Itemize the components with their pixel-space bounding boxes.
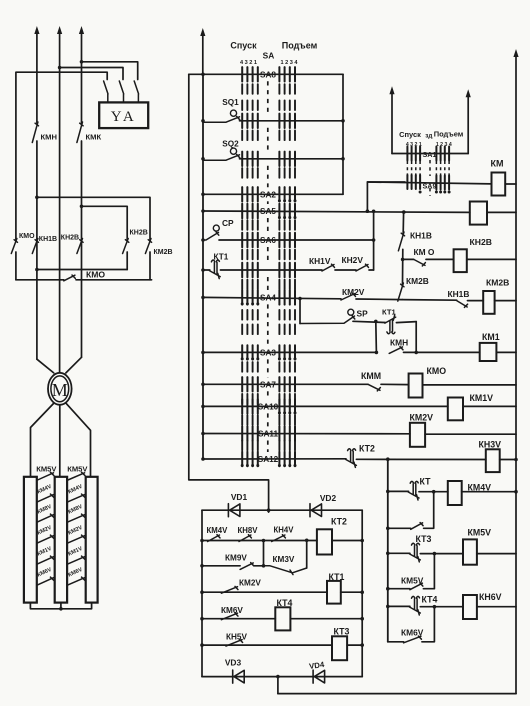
- svg-text:КН1V: КН1V: [309, 256, 331, 266]
- wire row KTrow a: [203, 269, 210, 271]
- contact KMM: [368, 384, 380, 391]
- wire: controller feed vertical: [202, 74, 204, 459]
- junction SA3/x376: [375, 351, 379, 355]
- wire: phase L1 vertical with arrow: [36, 32, 38, 123]
- junction riser/SA6: [201, 238, 205, 242]
- resistor bank R3: [86, 477, 98, 603]
- contact KMN on phase L1: [32, 122, 38, 143]
- wire KMO coil to bus: [423, 384, 517, 386]
- dots SA9 closed positions: [435, 191, 438, 194]
- svg-text:Спуск: Спуск: [399, 130, 421, 139]
- svg-text:Подъем: Подъем: [282, 41, 318, 51]
- junction SA5/x367: [366, 209, 370, 213]
- wire row SA7 b: [381, 383, 409, 385]
- wire: rotor left: [31, 404, 54, 477]
- wire row SA11: [203, 433, 410, 435]
- svg-text:КТ2: КТ2: [331, 517, 347, 527]
- contact KM2B aux: [398, 283, 404, 301]
- junction riser/SQ2: [201, 157, 205, 161]
- contact KM2V blk: [221, 586, 238, 593]
- junction SA6/x373: [372, 238, 376, 242]
- wire: x306 link: [306, 540, 308, 568]
- svg-text:КМ2В: КМ2В: [406, 276, 429, 286]
- svg-text:КМ2V: КМ2V: [410, 413, 434, 423]
- svg-text:КТ1: КТ1: [329, 572, 345, 582]
- wire KT row a: [388, 490, 409, 492]
- wire: x402 vertical a: [402, 212, 404, 233]
- svg-text:КТ3: КТ3: [334, 627, 350, 637]
- junction blk/r2: [200, 564, 204, 568]
- small controller centre dashes: [429, 160, 431, 176]
- contact KT1 on KTrow: [209, 260, 220, 279]
- junction x388/branch1: [386, 527, 390, 531]
- switch SP on SA6 row: [203, 232, 219, 240]
- contact KN1B aux: [398, 232, 404, 251]
- wire row2 blk b: [254, 565, 263, 567]
- svg-text:КМ5V: КМ5V: [468, 528, 492, 538]
- wire KM1V coil to bus: [463, 405, 516, 407]
- svg-text:Подъем: Подъем: [434, 130, 464, 139]
- coil KM2B: [483, 291, 494, 314]
- junction x343 SQ2row: [341, 157, 345, 161]
- svg-text:КМ2В: КМ2В: [486, 278, 509, 288]
- junction SA12/x388: [386, 457, 390, 461]
- contact KT: [408, 481, 419, 500]
- junction riser/SA5: [201, 209, 205, 213]
- contact KMN aux: [389, 347, 403, 354]
- coil KM4V: [448, 481, 462, 505]
- wire KM5V coil to bus: [477, 553, 516, 555]
- svg-text:КТ4: КТ4: [422, 595, 438, 605]
- contact KM9V blk: [240, 563, 254, 570]
- svg-text:КТ: КТ: [420, 477, 432, 487]
- wire: small riser left with arrow: [391, 92, 393, 153]
- wire: left drop lower: [15, 252, 17, 280]
- coil KM5V: [463, 539, 477, 564]
- coil KMO: [409, 374, 423, 398]
- junction x388/KTrow2: [386, 490, 390, 494]
- svg-text:КН8V: КН8V: [238, 526, 259, 535]
- contact KM2B on x150 drop: [145, 239, 151, 254]
- wire row SA8: [189, 73, 343, 75]
- junction L1 tie: [35, 196, 39, 200]
- wire row KTrow b: [220, 269, 322, 271]
- wire row SA2: [203, 193, 343, 195]
- junction KTrow/x434: [432, 490, 436, 494]
- controller closed-position dots: [278, 199, 281, 202]
- contact KN1B on phase L1: [32, 239, 38, 254]
- wire: YA tap 2 from L2: [60, 68, 123, 80]
- junction riser/SA12: [201, 457, 205, 461]
- coil KM2V: [410, 423, 425, 447]
- svg-text:КМК: КМК: [86, 133, 102, 142]
- contact branch1: [411, 523, 423, 530]
- wire row SA4: [203, 297, 402, 299]
- junction x343 SQ1row: [341, 119, 345, 123]
- wire branch1: [388, 527, 411, 529]
- contact of YA circuit 1: [104, 81, 108, 102]
- coil KT1: [327, 581, 341, 604]
- wire row SA6: [219, 239, 374, 241]
- wire: L3 slant into motor: [66, 357, 82, 373]
- wire KM coil to bus: [505, 183, 516, 185]
- wire row SQ1: [240, 120, 344, 122]
- junction r1/x263: [262, 539, 266, 543]
- junction riser/SA3: [201, 351, 205, 355]
- svg-text:SQ2: SQ2: [222, 140, 239, 149]
- wire KT row b: [419, 491, 448, 493]
- junction r1/x306: [305, 539, 309, 543]
- junction blk/r5: [200, 643, 204, 647]
- wire KM1 coil to bus: [496, 351, 516, 353]
- svg-text:КН3V: КН3V: [479, 440, 502, 450]
- svg-text:КТ1: КТ1: [382, 308, 396, 317]
- svg-text:КМ6V: КМ6V: [221, 606, 243, 615]
- wire KT2 coil to x362: [332, 540, 362, 542]
- junction riser/SA4: [201, 296, 205, 300]
- junction riser/SA11: [201, 432, 205, 436]
- contact of YA circuit 2: [119, 81, 123, 102]
- wire row SA3 a: [203, 351, 376, 353]
- ticks SA1 row: [406, 147, 408, 161]
- wire: x388 vertical: [387, 459, 389, 642]
- wire: x367 vertical to SA9 row: [367, 182, 405, 211]
- wire row KT2coil: [202, 540, 317, 542]
- svg-text:1 2 3 4: 1 2 3 4: [280, 60, 298, 66]
- svg-text:КН1В: КН1В: [448, 289, 470, 299]
- ticks SA9 row: [406, 175, 408, 189]
- svg-text:КН1В: КН1В: [39, 236, 57, 243]
- junction x388/branch2: [386, 587, 390, 591]
- wire row SA12 b: [356, 458, 485, 460]
- junction SA5/x373: [372, 210, 376, 214]
- wire KM2B coil to bus: [495, 300, 516, 302]
- wire KM2B row b: [468, 300, 484, 302]
- junction x362/r3: [360, 590, 364, 594]
- diode VD4: [313, 670, 325, 683]
- junction KT4row/x434: [433, 605, 437, 609]
- svg-text:4 3 2 1: 4 3 2 1: [240, 60, 257, 66]
- svg-text:SA1: SA1: [423, 150, 437, 159]
- contact KM2V on SA4 row: [341, 293, 356, 300]
- svg-text:КМН: КМН: [390, 338, 408, 348]
- wire: block right vertical: [361, 510, 363, 676]
- contact KN2B on x127 drop: [123, 239, 129, 254]
- wire row SA3 b: [404, 351, 480, 353]
- contact KMO on left drop: [11, 239, 17, 254]
- motor M circle: [48, 373, 72, 405]
- wire: x300 drop: [299, 299, 301, 324]
- controller intermediate ticks: [241, 84, 243, 94]
- wire: resistor bottom bar: [30, 603, 91, 609]
- wire: rotor right: [66, 404, 90, 477]
- wire row SQ2: [240, 158, 344, 160]
- small controller dashed ticks: [406, 161, 408, 177]
- junction at L2 tap: [58, 66, 62, 70]
- svg-text:КН2V: КН2V: [342, 255, 364, 265]
- junction riser/SA10: [201, 405, 205, 409]
- wire: phase L3 lower segment: [81, 141, 83, 357]
- wire KM2V coil to bus: [425, 433, 516, 435]
- svg-text:КН2В: КН2В: [61, 234, 79, 241]
- coil KT4: [275, 607, 290, 630]
- wire: x373 vertical: [373, 211, 375, 270]
- svg-text:КТ1: КТ1: [214, 253, 229, 262]
- wire row SA7 a: [203, 383, 368, 385]
- svg-text:КМ2В: КМ2В: [154, 249, 173, 256]
- wire KM4V coil to bus: [462, 491, 516, 493]
- wire: phase L3 vertical with arrow: [81, 32, 83, 123]
- dashed controller centre line: [267, 81, 269, 114]
- coil KM1V: [448, 398, 463, 421]
- junction VD1row/x268: [267, 508, 271, 512]
- resistor bank R2: [55, 477, 67, 603]
- wire KT1 coil to x362: [341, 591, 362, 593]
- wire: riser to controller with arrow: [202, 34, 204, 74]
- svg-text:SA: SA: [263, 51, 275, 61]
- contact KMO on row y279: [64, 275, 76, 281]
- contact KM5V aux: [410, 583, 423, 590]
- svg-text:КМО: КМО: [86, 270, 105, 280]
- wire: cluster right drop: [415, 322, 417, 353]
- wire KN2B coil to bus: [467, 258, 516, 260]
- wire: bottom return: [278, 693, 516, 695]
- controller contact ticks on rows: [241, 67, 243, 81]
- svg-text:КМ О: КМ О: [414, 247, 435, 257]
- junction SA3/x416: [414, 351, 418, 355]
- svg-text:КМ1V: КМ1V: [470, 393, 494, 403]
- contact KT2: [346, 449, 357, 468]
- svg-text:зд: зд: [425, 133, 432, 140]
- junction riser/SA8: [201, 73, 205, 77]
- svg-text:КН2В: КН2В: [130, 230, 148, 237]
- junction VD34/x278: [276, 675, 280, 679]
- wire: tie row y269: [37, 269, 127, 271]
- wire branch3: [388, 641, 404, 643]
- contact KT4: [410, 596, 421, 615]
- contact KMO aux: [414, 259, 426, 266]
- wire: phase L1 lower segment: [36, 141, 38, 359]
- wire: tie row y206: [82, 206, 128, 239]
- wire: right bus with arrow: [515, 55, 517, 694]
- svg-text:КТ2: КТ2: [359, 444, 375, 454]
- svg-text:SQ1: SQ1: [222, 98, 239, 107]
- limit switch SQ1: [203, 116, 240, 122]
- wire KT3 coil to x362: [347, 644, 362, 646]
- junction blk/r4: [200, 617, 204, 621]
- wire row VD1: [202, 509, 362, 511]
- wire branch3 b: [422, 607, 435, 642]
- junction riser/SQ1: [201, 119, 205, 123]
- wire row SA10: [203, 405, 448, 407]
- svg-text:КМ5V: КМ5V: [67, 464, 88, 473]
- brake electromagnet YA box: [99, 102, 148, 128]
- junction KT3row/x434: [433, 552, 437, 556]
- junction blk/r3: [200, 590, 204, 594]
- wire row KTrow c: [335, 269, 356, 271]
- wire KM3V coil to bus: [500, 459, 516, 461]
- svg-text:КМ4V: КМ4V: [207, 526, 229, 535]
- junction SP row/x376: [374, 320, 378, 324]
- contact KN2V: [356, 264, 369, 271]
- junction SA4/x300: [298, 297, 302, 301]
- svg-text:КМ3V: КМ3V: [273, 555, 295, 564]
- junction x388/KT3row: [386, 552, 390, 556]
- svg-text:СР: СР: [222, 218, 234, 228]
- wire KM6V coil to bus: [477, 606, 516, 608]
- contact KT3: [410, 543, 421, 562]
- contact KN4V blk: [272, 535, 286, 542]
- wire: x263 link: [263, 541, 265, 566]
- wire row SA1: [392, 153, 468, 155]
- junction x362/r1: [360, 539, 364, 543]
- coil KM1: [480, 343, 497, 361]
- svg-text:КТ3: КТ3: [416, 534, 432, 544]
- wire: small riser right with arrow: [467, 95, 469, 153]
- coil KM3V: [486, 449, 500, 472]
- wire KT4 coil to x362: [290, 618, 362, 620]
- wire row KT1coil: [202, 591, 327, 593]
- junction tie y269: [35, 268, 39, 272]
- svg-text:КМ2V: КМ2V: [342, 287, 365, 297]
- coil KM6V: [463, 595, 477, 619]
- resistor bank R1: [24, 477, 37, 603]
- wire row KTrow d: [369, 269, 374, 271]
- contact KM3V blk: [264, 566, 307, 575]
- svg-text:М: М: [52, 380, 68, 400]
- svg-text:КМ5V: КМ5V: [401, 576, 424, 586]
- wire SP row b: [396, 322, 416, 323]
- junction resistor bottom: [59, 607, 63, 611]
- junction L3 tie: [80, 205, 84, 209]
- wire: phase L2 vertical with arrow: [59, 32, 61, 373]
- wire: tie row y279 with KMO contact: [16, 279, 152, 281]
- svg-text:КМ9V: КМ9V: [225, 554, 247, 563]
- wire KT3 row a: [388, 552, 410, 554]
- svg-text:КМО: КМО: [19, 233, 35, 240]
- svg-text:SA9: SA9: [423, 182, 437, 191]
- wire row KT4coil: [202, 618, 275, 620]
- junction SA5/x402: [402, 210, 406, 214]
- wire: L1 slant into motor: [37, 359, 54, 373]
- contact KM6V blk: [221, 613, 238, 620]
- junction x362/r5: [360, 643, 364, 647]
- diode VD2: [310, 504, 322, 517]
- wire: rotor mid: [59, 405, 61, 477]
- coil KN2B: [454, 249, 467, 272]
- contact KM6V aux: [404, 636, 422, 643]
- wire: block left vertical: [201, 510, 203, 676]
- coil KM: [492, 173, 506, 196]
- svg-text:Спуск: Спуск: [230, 41, 257, 51]
- svg-text:КН6V: КН6V: [479, 592, 502, 602]
- contact KN1V: [322, 264, 335, 271]
- junction x362/r4: [360, 617, 364, 621]
- wire row VD34: [202, 676, 362, 678]
- junction bus/KTrow: [514, 490, 518, 494]
- svg-text:VD3: VD3: [225, 658, 242, 668]
- contact KN2B on phase L3: [77, 239, 83, 254]
- wire: YA tap 3 / left drop wire: [16, 72, 107, 240]
- wire: YA tap 1 from L3: [82, 62, 138, 80]
- wire: x402 vertical b: [402, 249, 404, 284]
- junction blk/r1: [200, 539, 204, 543]
- wire SP row a: [353, 321, 385, 322]
- svg-text:КН2В: КН2В: [470, 237, 492, 247]
- svg-text:КМН: КМН: [41, 133, 57, 142]
- wire row SA9: [367, 182, 491, 184]
- svg-text:КМО: КМО: [427, 366, 447, 376]
- wire KT4 row b: [420, 606, 463, 608]
- contact of YA circuit 3: [134, 81, 138, 102]
- wire branch1 b: [424, 492, 434, 529]
- svg-text:КМ2V: КМ2V: [239, 579, 261, 588]
- wire row KT3coil: [202, 644, 332, 646]
- svg-text:VD1: VD1: [231, 492, 248, 502]
- coil KT3: [332, 636, 347, 660]
- wire: cluster left drop: [375, 321, 378, 352]
- contact KM4V blk: [208, 535, 220, 542]
- svg-text:КН1В: КН1В: [410, 231, 432, 241]
- junction riser/KTrow: [201, 268, 205, 272]
- wire: right vertical x343: [342, 74, 344, 194]
- svg-text:КН5V: КН5V: [226, 633, 247, 642]
- junction r2/x263: [262, 564, 266, 568]
- wire row SA12 a: [203, 458, 346, 460]
- wire KT4 row a: [388, 605, 410, 607]
- wire row2 blk: [202, 565, 240, 567]
- svg-text:КММ: КММ: [361, 371, 381, 381]
- wire row SA5 + extension: [203, 211, 470, 212]
- diode VD3: [233, 670, 245, 683]
- junction riser/SA2: [201, 193, 205, 197]
- contacts: resistor shorting blades: [38, 472, 54, 480]
- svg-text:YA: YA: [111, 109, 137, 125]
- wire: x127 drop lower: [126, 252, 128, 270]
- diode VD1: [228, 504, 240, 517]
- contact KN1B2: [457, 301, 468, 308]
- svg-text:КМ1: КМ1: [482, 332, 500, 342]
- junction x402/KMO row: [401, 258, 405, 262]
- coil KT2: [317, 529, 332, 554]
- wire coil to bus row212: [487, 211, 516, 213]
- contact KMK on phase L3: [77, 122, 83, 143]
- svg-text:VD2: VD2: [320, 493, 337, 503]
- wire branch2 b: [423, 554, 434, 589]
- wire branch2: [388, 588, 410, 590]
- junction bus/SA12row: [514, 458, 518, 462]
- contact KN5V blk: [226, 639, 243, 646]
- contact KN8V blk: [239, 535, 251, 542]
- contact KT1 hanging: [385, 315, 396, 334]
- svg-text:SР: SР: [357, 309, 369, 319]
- wire KM2B row a: [402, 299, 456, 302]
- junction at L3 tap: [80, 60, 84, 64]
- svg-text:КМ6V: КМ6V: [401, 628, 424, 638]
- wire KMO row b: [426, 258, 454, 260]
- svg-text:КМ5V: КМ5V: [36, 464, 57, 473]
- wire: drop to bottom return: [277, 677, 279, 694]
- wire KMO row a: [403, 258, 414, 260]
- wire: x150 drop lower: [149, 252, 151, 280]
- limit switch SQ2: [203, 154, 240, 160]
- junction riser/SA7: [201, 383, 205, 387]
- wire: left bus of loop: [189, 74, 269, 512]
- switch SP2: [300, 316, 355, 324]
- svg-text:КМ: КМ: [491, 159, 504, 169]
- svg-text:КН4V: КН4V: [274, 526, 295, 535]
- svg-text:КТ4: КТ4: [277, 598, 293, 608]
